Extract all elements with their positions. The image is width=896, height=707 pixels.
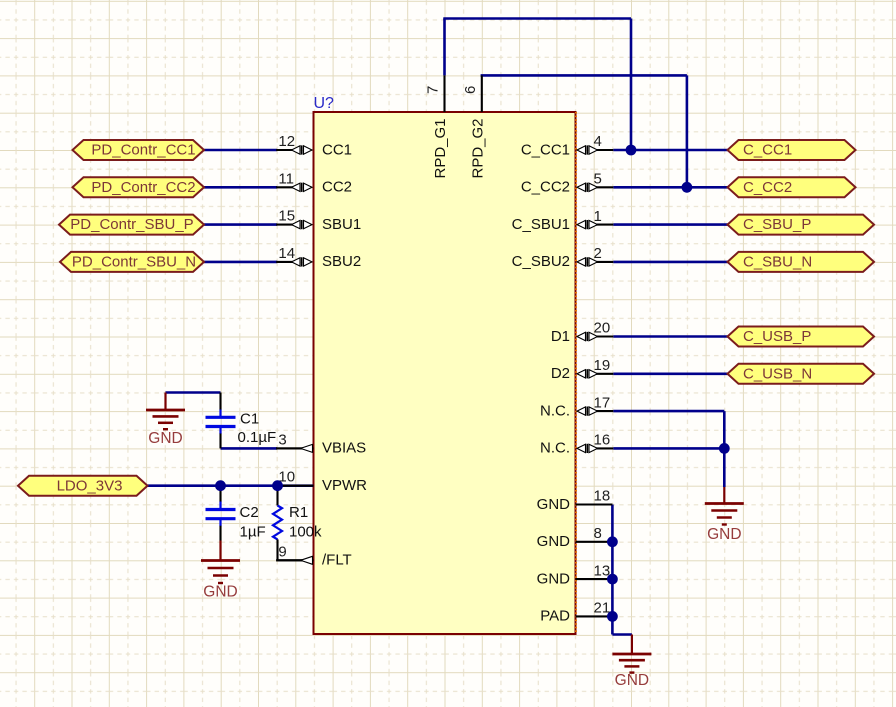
svg-text:GND: GND (537, 533, 571, 550)
svg-text:GND: GND (707, 526, 741, 543)
svg-text:8: 8 (594, 525, 602, 542)
svg-text:/FLT: /FLT (322, 552, 352, 569)
svg-text:CC1: CC1 (322, 141, 352, 158)
svg-text:U?: U? (314, 95, 335, 112)
svg-text:VBIAS: VBIAS (322, 440, 366, 457)
svg-text:C_USB_N: C_USB_N (743, 365, 812, 382)
svg-text:R1: R1 (289, 504, 308, 521)
svg-text:C_CC1: C_CC1 (521, 141, 570, 158)
svg-text:C_SBU_P: C_SBU_P (743, 216, 811, 233)
svg-text:100k: 100k (289, 524, 322, 541)
svg-text:C_CC2: C_CC2 (521, 179, 570, 196)
svg-text:PD_Contr_CC2: PD_Contr_CC2 (91, 179, 195, 196)
svg-text:C_CC2: C_CC2 (743, 179, 792, 196)
svg-text:VPWR: VPWR (322, 477, 367, 494)
svg-text:RPD_G1: RPD_G1 (432, 118, 449, 178)
svg-text:SBU1: SBU1 (322, 216, 361, 233)
svg-text:GND: GND (203, 584, 237, 601)
svg-text:1: 1 (594, 208, 602, 225)
svg-text:6: 6 (462, 86, 479, 94)
svg-text:PD_Contr_SBU_P: PD_Contr_SBU_P (70, 216, 193, 233)
svg-text:C_SBU_N: C_SBU_N (743, 254, 812, 271)
svg-text:0.1µF: 0.1µF (238, 429, 277, 446)
svg-text:C_USB_P: C_USB_P (743, 328, 811, 345)
svg-text:D2: D2 (551, 365, 570, 382)
svg-text:GND: GND (615, 672, 649, 689)
svg-text:20: 20 (594, 320, 611, 337)
svg-text:C_SBU2: C_SBU2 (512, 253, 570, 270)
svg-text:1µF: 1µF (240, 524, 266, 541)
svg-text:GND: GND (537, 570, 571, 587)
svg-text:N.C.: N.C. (540, 440, 570, 457)
svg-text:17: 17 (594, 394, 611, 411)
svg-text:16: 16 (594, 432, 611, 449)
svg-text:14: 14 (278, 245, 295, 262)
svg-text:GND: GND (537, 496, 571, 513)
svg-text:SBU2: SBU2 (322, 253, 361, 270)
svg-text:19: 19 (594, 357, 611, 374)
svg-text:PD_Contr_CC1: PD_Contr_CC1 (91, 142, 195, 159)
svg-text:18: 18 (594, 488, 611, 505)
svg-text:3: 3 (278, 431, 286, 448)
svg-text:C2: C2 (240, 504, 259, 521)
svg-text:15: 15 (278, 208, 295, 225)
svg-text:CC2: CC2 (322, 179, 352, 196)
svg-text:RPD_G2: RPD_G2 (470, 118, 487, 178)
svg-text:PAD: PAD (540, 608, 570, 625)
svg-text:N.C.: N.C. (540, 402, 570, 419)
svg-text:2: 2 (594, 245, 602, 262)
svg-text:C_CC1: C_CC1 (743, 142, 792, 159)
svg-text:C1: C1 (240, 411, 259, 428)
svg-text:PD_Contr_SBU_N: PD_Contr_SBU_N (72, 254, 196, 271)
svg-text:12: 12 (278, 133, 295, 150)
svg-text:9: 9 (278, 543, 286, 560)
svg-text:4: 4 (594, 133, 602, 150)
svg-text:LDO_3V3: LDO_3V3 (57, 477, 123, 494)
svg-text:11: 11 (278, 170, 294, 187)
svg-text:5: 5 (594, 171, 602, 188)
svg-text:GND: GND (148, 430, 182, 447)
svg-text:7: 7 (425, 86, 442, 94)
svg-text:C_SBU1: C_SBU1 (512, 216, 570, 233)
svg-text:D1: D1 (551, 328, 570, 345)
